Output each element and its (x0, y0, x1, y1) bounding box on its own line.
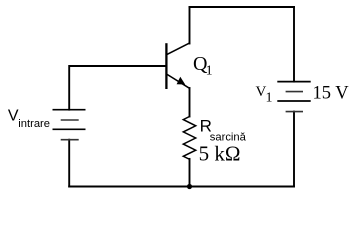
svg-text:1: 1 (266, 91, 273, 106)
svg-text:15 V: 15 V (313, 84, 350, 104)
svg-text:5 kΩ: 5 kΩ (199, 142, 241, 166)
svg-text:intrare: intrare (18, 118, 50, 130)
svg-text:V: V (8, 108, 19, 125)
svg-text:1: 1 (206, 64, 213, 79)
